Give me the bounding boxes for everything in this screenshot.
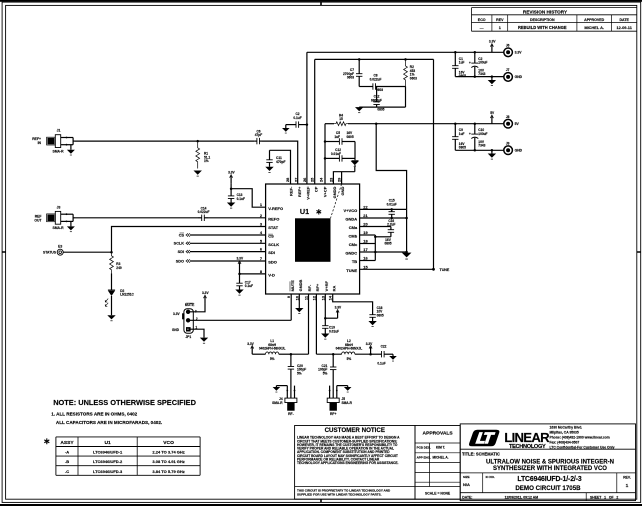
svg-text:0.1uF: 0.1uF [377, 362, 385, 366]
svg-text:12/09/2011, 09:12 AM: 12/09/2011, 09:12 AM [505, 495, 539, 499]
svg-text:LTC6946IUFD-2: LTC6946IUFD-2 [93, 459, 123, 464]
svg-text:VCO: VCO [163, 440, 174, 446]
svg-text:+: + [469, 61, 471, 65]
svg-text:TB: TB [352, 259, 357, 264]
svg-text:1: 1 [626, 483, 629, 489]
svg-text:REV: REV [496, 18, 504, 22]
svg-text:ULTRALOW NOISE & SPURIOUS INTE: ULTRALOW NOISE & SPURIOUS INTEGER-N [486, 459, 614, 465]
svg-text:SDI: SDI [268, 250, 275, 255]
svg-text:REV.: REV. [623, 476, 631, 480]
svg-text:TUNE: TUNE [346, 268, 357, 273]
svg-text:SIZE: SIZE [463, 475, 470, 479]
svg-text:0.022uF: 0.022uF [198, 210, 210, 214]
svg-text:V+RF: V+RF [324, 281, 329, 292]
svg-text:APPROVALS: APPROVALS [423, 430, 454, 436]
svg-text:7: 7 [260, 256, 262, 261]
svg-text:CMc: CMc [349, 242, 358, 247]
svg-text:J8: J8 [506, 115, 510, 119]
svg-text:GNDA: GNDA [345, 217, 357, 222]
svg-text:0.1uF: 0.1uF [293, 116, 301, 120]
svg-text:SCLK: SCLK [268, 242, 279, 247]
svg-text:REVISION HISTORY: REVISION HISTORY [523, 9, 568, 14]
svg-text:SMA-R: SMA-R [272, 401, 283, 405]
svg-text:0603: 0603 [410, 76, 417, 80]
svg-text:SCALE = NONE: SCALE = NONE [425, 492, 451, 496]
svg-text:J1: J1 [57, 128, 61, 132]
svg-text:5V: 5V [515, 122, 520, 126]
svg-text:6800pF: 6800pF [371, 98, 382, 102]
svg-text:SHEET 1 OF 2: SHEET 1 OF 2 [590, 495, 618, 499]
svg-text:0805: 0805 [377, 108, 384, 112]
svg-text:LTC6946IUFD-1: LTC6946IUFD-1 [93, 450, 123, 455]
svg-text:MUTE: MUTE [290, 280, 295, 292]
svg-text:1: 1 [499, 26, 501, 30]
svg-text:J7: J7 [506, 68, 510, 72]
svg-text:17: 17 [363, 247, 367, 252]
svg-text:J3: J3 [57, 205, 61, 209]
svg-text:J6: J6 [506, 44, 510, 48]
svg-text:1uF: 1uF [334, 135, 340, 139]
svg-text:SDO: SDO [176, 259, 184, 263]
svg-text:STATUS: STATUS [43, 251, 57, 255]
svg-text:+: + [469, 132, 471, 136]
svg-text:GND: GND [515, 75, 523, 79]
svg-text:CMa: CMa [349, 225, 358, 230]
svg-text:3.3V: 3.3V [515, 51, 523, 55]
svg-text:REF+: REF+ [297, 186, 302, 197]
svg-text:Milpitas, CA 95035: Milpitas, CA 95035 [550, 430, 579, 434]
svg-text:PCB DES.: PCB DES. [417, 446, 431, 450]
svg-text:0.1uF: 0.1uF [237, 197, 245, 201]
svg-text:REFO: REFO [268, 216, 279, 221]
svg-text:0805: 0805 [384, 242, 391, 246]
svg-text:0805: 0805 [347, 135, 354, 139]
svg-text:TITLE: SCHEMATIC: TITLE: SCHEMATIC [462, 452, 500, 457]
svg-text:OUT: OUT [34, 219, 42, 223]
svg-text:MICHEL A.: MICHEL A. [432, 455, 448, 459]
svg-text:V-REFO: V-REFO [268, 206, 283, 211]
svg-text:N/A: N/A [463, 482, 470, 487]
svg-text:SCLK: SCLK [174, 242, 185, 246]
svg-text:0.1uF: 0.1uF [245, 284, 253, 288]
svg-text:3.3V: 3.3V [489, 40, 496, 44]
svg-text:C22: C22 [381, 345, 387, 349]
svg-text:-A: -A [65, 450, 69, 455]
svg-text:GND: GND [340, 186, 345, 195]
svg-text:100uF: 100uF [478, 132, 487, 136]
svg-text:0402HPH-68NXJL: 0402HPH-68NXJL [336, 347, 363, 351]
svg-text:IN: IN [38, 141, 42, 145]
svg-text:3.3V: 3.3V [366, 342, 373, 346]
svg-text:2.2uF: 2.2uF [387, 223, 395, 227]
svg-text:5%: 5% [270, 357, 275, 361]
svg-text:CP: CP [313, 186, 318, 192]
svg-text:7343: 7343 [478, 72, 485, 76]
svg-text:LTC Confidential-For Customer: LTC Confidential-For Customer Use Only [550, 446, 615, 450]
svg-text:E3: E3 [58, 245, 62, 249]
svg-text:APP ENG.: APP ENG. [417, 455, 431, 459]
svg-text:U1: U1 [300, 207, 309, 216]
svg-text:Fax: (408)434-0507: Fax: (408)434-0507 [550, 441, 580, 445]
svg-text:0402HPH-68NXJL: 0402HPH-68NXJL [259, 347, 286, 351]
svg-text:LTC6946IUFD-1/-2/-3: LTC6946IUFD-1/-2/-3 [517, 476, 582, 483]
svg-text:DATE:: DATE: [462, 495, 472, 499]
svg-text:1uF: 1uF [459, 132, 465, 136]
svg-text:LN1251C: LN1251C [120, 293, 134, 297]
svg-text:Phone: (408)432-1900 www.lin: Phone: (408)432-1900 www.linear.com [550, 436, 610, 440]
svg-text:-B: -B [65, 459, 69, 464]
svg-text:V-D: V-D [268, 273, 275, 278]
svg-text:3.84 TO 5.79 GHz: 3.84 TO 5.79 GHz [152, 469, 184, 474]
svg-text:DEMO CIRCUIT 1705B: DEMO CIRCUIT 1705B [515, 485, 581, 492]
svg-text:RF+: RF+ [315, 283, 320, 291]
svg-text:CMb: CMb [349, 234, 358, 239]
svg-text:2.24 TO 3.74 GHz: 2.24 TO 3.74 GHz [152, 450, 184, 455]
svg-text:J9: J9 [506, 141, 510, 145]
svg-text:TECHNOLOGY APPLICATIONS ENGINE: TECHNOLOGY APPLICATIONS ENGINEERING FOR … [297, 461, 399, 465]
svg-text:IC NO.: IC NO. [486, 475, 495, 479]
svg-text:0805: 0805 [459, 74, 466, 78]
svg-text:V+REF: V+REF [306, 186, 311, 200]
svg-text:3.3V: 3.3V [335, 305, 342, 309]
svg-text:249: 249 [116, 266, 122, 270]
svg-text:DESCRIPTION: DESCRIPTION [530, 18, 555, 22]
svg-text:RF-: RF- [307, 284, 312, 291]
svg-text:SYNTHESIZER WITH INTEGRATED VC: SYNTHESIZER WITH INTEGRATED VCO [493, 466, 607, 472]
svg-text:GNDC: GNDC [345, 251, 357, 256]
svg-text:GNDD: GNDD [332, 186, 337, 198]
svg-text:3.3V: 3.3V [237, 257, 244, 261]
svg-text:JP1: JP1 [185, 335, 191, 339]
svg-text:5%: 5% [297, 371, 302, 375]
svg-text:—: — [480, 26, 484, 30]
svg-text:12-09-11: 12-09-11 [617, 25, 633, 30]
svg-text:3.3V: 3.3V [228, 171, 235, 175]
svg-text:ASSY: ASSY [60, 440, 74, 446]
svg-text:0.01uF: 0.01uF [331, 152, 341, 156]
svg-text:5%: 5% [323, 371, 328, 375]
svg-text:U1: U1 [104, 440, 111, 446]
svg-text:ALL CAPACITORS ARE IN MICROFAR: ALL CAPACITORS ARE IN MICROFARADS, 0402. [56, 420, 162, 425]
svg-text:470pF: 470pF [276, 160, 286, 164]
svg-text:SMA-R: SMA-R [342, 401, 353, 405]
svg-text:CUSTOMER NOTICE: CUSTOMER NOTICE [325, 427, 385, 434]
svg-text:LINEAR: LINEAR [504, 430, 550, 445]
svg-text:REF-: REF- [289, 186, 294, 196]
svg-text:3.3V: 3.3V [202, 291, 209, 295]
svg-text:APPROVED: APPROVED [584, 18, 605, 22]
svg-text:100uF: 100uF [478, 60, 487, 64]
svg-text:0805: 0805 [377, 313, 384, 317]
svg-text:7343: 7343 [478, 144, 485, 148]
svg-text:REBUILD WITH CHANGE: REBUILD WITH CHANGE [518, 25, 567, 30]
svg-text:SMA-R: SMA-R [52, 150, 64, 154]
svg-text:RF+: RF+ [330, 412, 337, 416]
svg-text:GND: GND [172, 328, 180, 332]
svg-text:SUPPLIED FOR USE WITH LINEAR T: SUPPLIED FOR USE WITH LINEAR TECHNOLOGY … [297, 492, 382, 496]
svg-text:SDI: SDI [178, 250, 184, 254]
svg-text:3.08 TO 4.91 GHz: 3.08 TO 4.91 GHz [152, 459, 184, 464]
svg-text:0.01uF: 0.01uF [329, 330, 339, 334]
svg-text:ECO: ECO [478, 18, 486, 22]
svg-text:TUNE: TUNE [440, 268, 450, 272]
svg-text:GND: GND [515, 149, 523, 153]
svg-text:10: 10 [294, 296, 299, 300]
svg-text:3.3V: 3.3V [247, 342, 254, 346]
svg-text:3.3V: 3.3V [173, 312, 180, 316]
svg-text:MICHEL A.: MICHEL A. [584, 25, 604, 30]
svg-text:0805: 0805 [459, 146, 466, 150]
svg-text:RA: RA [331, 286, 336, 292]
svg-text:CS: CS [179, 233, 185, 237]
svg-text:1. ALL RESISTORS ARE IN OHMS,: 1. ALL RESISTORS ARE IN OHMS, 0402 [51, 412, 137, 417]
svg-text:0603: 0603 [347, 76, 354, 80]
svg-text:0.022uF: 0.022uF [370, 77, 382, 81]
svg-text:20: 20 [363, 222, 367, 227]
svg-text:KIM T.: KIM T. [436, 446, 445, 450]
svg-text:15: 15 [339, 117, 343, 121]
svg-text:47pF: 47pF [255, 133, 262, 137]
svg-text:NOTE: UNLESS OTHERWISE SPECIFI: NOTE: UNLESS OTHERWISE SPECIFIED [53, 398, 196, 407]
svg-text:V+CP: V+CP [322, 186, 327, 197]
svg-text:1630 McCarthy Blvd.: 1630 McCarthy Blvd. [550, 425, 583, 429]
svg-text:LTC6946IUFD-3: LTC6946IUFD-3 [93, 469, 123, 474]
svg-text:GNDB: GNDB [298, 280, 303, 292]
svg-text:DATE: DATE [619, 18, 629, 22]
svg-text:SDO: SDO [268, 260, 277, 265]
svg-text:TECHNOLOGY: TECHNOLOGY [509, 444, 546, 450]
svg-text:1%: 1% [204, 159, 209, 163]
svg-text:STAT: STAT [268, 225, 278, 230]
svg-text:1uF: 1uF [459, 60, 465, 64]
svg-text:5%: 5% [347, 357, 352, 361]
svg-text:V+VCO: V+VCO [344, 208, 358, 213]
svg-text:MUTE: MUTE [185, 303, 195, 307]
svg-text:SMA-R: SMA-R [52, 226, 64, 230]
svg-text:-C: -C [65, 469, 69, 474]
svg-text:RF-: RF- [288, 412, 294, 416]
svg-text:0.01uF: 0.01uF [387, 202, 397, 206]
